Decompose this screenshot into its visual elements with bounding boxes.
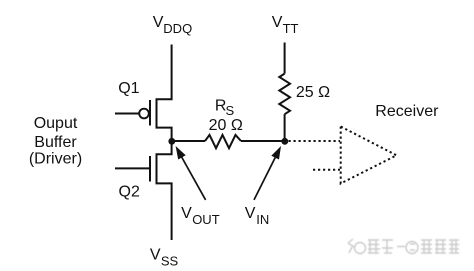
transistor Q1 gate bubble	[139, 109, 149, 119]
svg-text:20 Ω: 20 Ω	[209, 117, 243, 134]
dotted stub Vref input	[313, 169, 340, 171]
svg-text:V: V	[272, 14, 283, 31]
label VOUT	[181, 205, 220, 227]
svg-text:OUT: OUT	[192, 212, 220, 227]
label VDDQ	[153, 14, 192, 36]
svg-text:Q2: Q2	[119, 184, 140, 201]
resistor 25 ohm zigzag	[279, 74, 290, 115]
wire RS to node VIN	[241, 140, 285, 142]
arrow to VIN node	[254, 146, 281, 200]
label VTT	[272, 14, 299, 36]
transistor Q1 (PMOS) gate plate	[149, 100, 151, 126]
svg-text:V: V	[245, 205, 256, 222]
svg-text:DDQ: DDQ	[163, 21, 192, 36]
node VOUT junction dot	[168, 138, 175, 145]
svg-text:S: S	[226, 103, 235, 118]
transistor Q2 gate lead	[115, 167, 149, 169]
wire node to resistor RS	[172, 140, 205, 142]
svg-text:(Driver): (Driver)	[29, 151, 82, 168]
label VIN	[245, 205, 270, 227]
transistor Q1 gate lead	[115, 113, 139, 115]
dotted wire node to receiver	[289, 140, 341, 142]
svg-text:IN: IN	[256, 212, 269, 227]
label RS	[215, 98, 235, 118]
arrow to VOUT node	[176, 146, 206, 200]
wire 25ohm to node	[284, 114, 286, 141]
wire VTT down	[284, 43, 286, 74]
svg-text:V: V	[150, 247, 161, 264]
node VIN junction dot	[281, 138, 288, 145]
watermark (faint)	[348, 239, 459, 254]
resistor RS zigzag	[205, 135, 241, 148]
receiver triangle (dotted)	[341, 127, 397, 184]
transistor Q2 (NMOS) gate plate	[149, 156, 151, 182]
svg-text:TT: TT	[283, 21, 299, 36]
svg-text:Ouput: Ouput	[34, 115, 78, 132]
svg-text:V: V	[181, 205, 192, 222]
svg-text:Q1: Q1	[118, 80, 139, 97]
svg-text:25 Ω: 25 Ω	[296, 84, 330, 101]
wire VDDQ to Q1 drain, Q1 channel, node, Q2 channel, wire to VSS	[157, 45, 172, 241]
svg-text:V: V	[153, 14, 164, 31]
label VSS	[150, 247, 179, 269]
svg-text:Buffer: Buffer	[34, 134, 77, 151]
svg-text:SS: SS	[161, 254, 179, 269]
svg-text:Receiver: Receiver	[375, 103, 439, 120]
label Ouput Buffer (Driver)	[29, 115, 82, 167]
